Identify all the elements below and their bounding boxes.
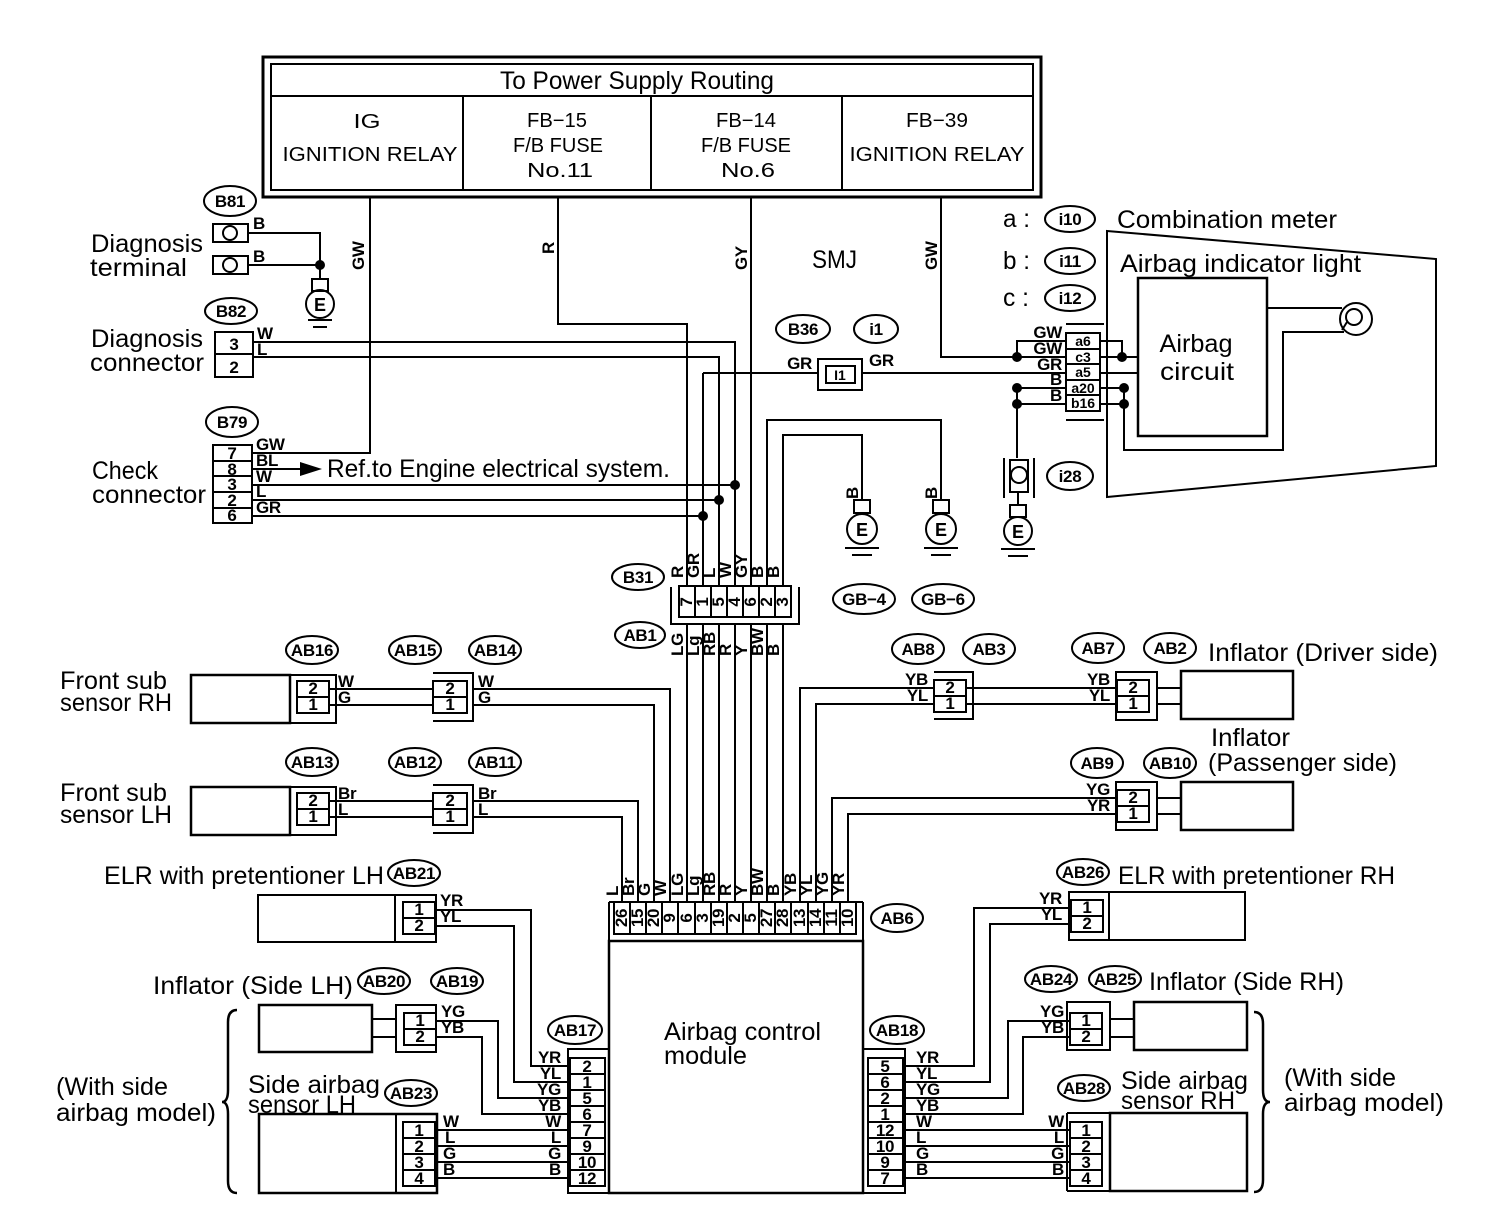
wire LG B31 pin7 to module pin 6 xyxy=(686,624,688,902)
svg-text:AB12: AB12 xyxy=(394,753,436,772)
connector i28 label xyxy=(1047,462,1093,490)
AB21 pin box xyxy=(403,902,435,934)
svg-text:Inflator: Inflator xyxy=(1211,724,1290,752)
svg-text:Inflator (Side LH): Inflator (Side LH) xyxy=(153,972,353,1000)
inline connector AB12/AB11 xyxy=(433,785,473,833)
connector AB18 housing xyxy=(863,1049,905,1193)
wire Br AB11 to module pin 15 xyxy=(473,801,638,902)
svg-text:1: 1 xyxy=(308,695,317,714)
svg-text:AB21: AB21 xyxy=(393,864,435,883)
wire B from b16 xyxy=(1017,403,1066,405)
svg-text:1: 1 xyxy=(945,694,954,713)
connector i12 label xyxy=(1045,285,1095,311)
combination meter outline trapezoid xyxy=(1107,231,1436,497)
svg-text:IGNITION RELAY: IGNITION RELAY xyxy=(850,144,1025,166)
wire L AB18 pin 10 to AB28 pin 2 xyxy=(903,1145,1070,1147)
svg-text:airbag model): airbag model) xyxy=(56,1099,216,1127)
connector B31 housing xyxy=(671,587,799,624)
svg-text:YR: YR xyxy=(829,873,848,896)
svg-text:E: E xyxy=(935,520,947,540)
wire GR from riser to I1 xyxy=(703,372,818,374)
svg-text:GW: GW xyxy=(349,240,368,270)
svg-text:AB28: AB28 xyxy=(1063,1079,1105,1098)
wire YG AB18 pin 2 to AB24 xyxy=(903,1021,1070,1098)
connector AB17 housing xyxy=(568,1049,609,1193)
svg-text:3: 3 xyxy=(229,335,238,354)
svg-text:GB−6: GB−6 xyxy=(921,590,965,609)
airbag circuit box xyxy=(1138,278,1267,436)
power box outer frame xyxy=(263,57,1041,197)
wire R from FB-15 down to B31 pin 7 xyxy=(558,197,687,586)
front sub sensor LH body xyxy=(191,787,290,835)
connector AB18 label xyxy=(870,1016,924,1044)
svg-text:GR: GR xyxy=(869,351,894,370)
svg-text:FB−14: FB−14 xyxy=(716,110,776,132)
wire B AB18 pin 7 to AB28 pin 4 xyxy=(903,1177,1070,1179)
wire Br AB13 to AB12 xyxy=(329,800,433,802)
svg-text:I1: I1 xyxy=(834,367,846,383)
wire L from pin 2 to B31 pin 5 xyxy=(252,499,719,501)
wire W from pin 3 to B31 pin 4 xyxy=(252,484,735,486)
link to AB19 xyxy=(372,1019,396,1037)
svg-text:GY: GY xyxy=(732,245,751,270)
connector B79 pins 7 8 3 2 6 xyxy=(213,445,252,523)
svg-text:AB10: AB10 xyxy=(1149,754,1191,773)
svg-text:2: 2 xyxy=(414,916,423,935)
svg-text:E: E xyxy=(314,295,326,315)
svg-text:connector: connector xyxy=(90,349,204,377)
connector AB14 label xyxy=(469,636,521,664)
svg-text:a :: a : xyxy=(1003,205,1030,233)
connector AB2 label xyxy=(1144,633,1196,663)
wire W AB23 to AB17 pin 7 xyxy=(435,1129,570,1131)
svg-text:E: E xyxy=(1012,522,1024,542)
svg-text:AB8: AB8 xyxy=(901,640,934,659)
connector B31 pin row 7 1 5 4 6 2 3 xyxy=(679,586,791,617)
svg-text:2: 2 xyxy=(1081,1027,1090,1046)
svg-text:F/B FUSE: F/B FUSE xyxy=(513,135,603,157)
inline connector AB15/AB14 xyxy=(433,673,473,721)
svg-text:(Passenger side): (Passenger side) xyxy=(1208,749,1397,777)
right brace xyxy=(1254,1012,1270,1192)
side airbag sensor RH body xyxy=(1110,1113,1247,1191)
svg-text:GW: GW xyxy=(922,240,941,270)
wire YB AB3 to AB7 xyxy=(966,687,1117,689)
svg-text:2: 2 xyxy=(229,358,238,377)
svg-text:B: B xyxy=(922,487,941,499)
svg-text:2: 2 xyxy=(1082,914,1091,933)
ground E GB-4 xyxy=(845,500,879,555)
connector B82 label xyxy=(205,298,257,324)
svg-text:FB−39: FB−39 xyxy=(906,110,968,132)
connector AB28 label xyxy=(1058,1075,1110,1101)
combination meter connector tray xyxy=(1066,324,1104,420)
wire R B31 pin4 to module pin 2 xyxy=(734,624,736,902)
svg-text:ELR with pretentioner RH: ELR with pretentioner RH xyxy=(1118,862,1395,890)
svg-text:YR: YR xyxy=(1087,796,1110,815)
svg-text:sensor LH: sensor LH xyxy=(60,801,172,829)
power supply routing block xyxy=(263,57,1041,197)
connector AB6 pin row xyxy=(614,902,856,934)
svg-text:B82: B82 xyxy=(216,302,246,321)
inline connector AB7/AB2 xyxy=(1116,672,1157,720)
wire YR module pin 10 to AB9 xyxy=(848,814,1117,902)
svg-text:sensor RH: sensor RH xyxy=(60,689,172,717)
svg-text:1: 1 xyxy=(445,807,454,826)
SMJ joint I1 xyxy=(818,359,862,390)
connector AB1 label xyxy=(615,622,665,648)
svg-text:AB17: AB17 xyxy=(554,1021,596,1040)
wire GY from FB-14 down to B31 pin 6 xyxy=(750,197,752,586)
connector B81 label xyxy=(204,186,256,216)
meter side wire b16 xyxy=(1100,403,1124,405)
svg-text:i1: i1 xyxy=(869,320,883,339)
svg-text:ELR with pretentioner LH: ELR with pretentioner LH xyxy=(104,862,384,890)
wire B AB23 to AB17 pin 12 xyxy=(435,1177,570,1179)
connector AB10 label xyxy=(1144,748,1196,778)
svg-text:B31: B31 xyxy=(623,568,653,587)
svg-text:SMJ: SMJ xyxy=(812,246,857,274)
link to driver inflator xyxy=(1157,688,1181,704)
svg-text:c3: c3 xyxy=(1075,349,1091,365)
wire G AB16 to AB15 xyxy=(329,704,433,706)
inflator side RH body xyxy=(1134,1002,1247,1050)
svg-text:Inflator (Side RH): Inflator (Side RH) xyxy=(1149,968,1344,996)
svg-text:7: 7 xyxy=(880,1169,889,1188)
side airbag sensor LH body xyxy=(259,1114,437,1193)
svg-text:AB14: AB14 xyxy=(474,641,517,660)
svg-text:4: 4 xyxy=(1081,1169,1091,1188)
svg-text:AB25: AB25 xyxy=(1094,970,1136,989)
wire BL from pin 8 with arrow xyxy=(252,468,300,470)
arrow head xyxy=(300,462,322,476)
connector AB6 housing xyxy=(609,902,863,941)
connector AB18 pin column 5 6 2 1 12 10 9 7 xyxy=(868,1058,903,1186)
lamp return wire to b16 xyxy=(1124,332,1344,450)
connector AB25 label xyxy=(1089,966,1141,992)
wire W AB18 pin 12 to AB28 pin 1 xyxy=(903,1129,1070,1131)
connector B82 pins xyxy=(215,332,253,377)
AB19 pin box xyxy=(404,1013,436,1045)
svg-text:i11: i11 xyxy=(1059,252,1081,271)
power box inner frame xyxy=(271,64,1033,190)
svg-text:3: 3 xyxy=(773,597,792,606)
svg-text:AB1: AB1 xyxy=(623,626,656,645)
svg-text:No.6: No.6 xyxy=(721,160,775,182)
svg-text:a5: a5 xyxy=(1075,364,1091,380)
connector AB19 label xyxy=(431,968,483,994)
connector AB9 label xyxy=(1071,748,1123,778)
svg-text:AB19: AB19 xyxy=(436,972,478,991)
wire Lg B31 pin1 to module pin 3 xyxy=(702,624,704,902)
meter side wire c3 into airbag circuit xyxy=(1100,356,1138,358)
wire from airbag circuit to lamp xyxy=(1267,307,1342,309)
junction dot xyxy=(1117,352,1127,362)
junction dot on GW xyxy=(1012,352,1022,362)
svg-text:circuit: circuit xyxy=(1160,358,1234,386)
svg-text:connector: connector xyxy=(92,481,206,509)
wire W from B82 pin 3 to B31 pin 4 xyxy=(253,342,735,586)
wire YR AB21 to AB17 pin 2 xyxy=(435,910,570,1066)
ELR pretentioner RH body xyxy=(1069,892,1245,940)
connector AB8 label xyxy=(892,634,944,664)
svg-text:B36: B36 xyxy=(788,320,818,339)
wire YL module pin 14 to AB8 xyxy=(816,704,934,902)
svg-text:1: 1 xyxy=(1128,694,1137,713)
svg-text:No.11: No.11 xyxy=(527,160,593,182)
svg-text:1: 1 xyxy=(308,807,317,826)
svg-text:i12: i12 xyxy=(1059,289,1082,308)
wire YB AB19 to AB17 pin 6 xyxy=(436,1037,570,1114)
AB28 pin box xyxy=(1070,1122,1102,1186)
column divider 2 xyxy=(650,96,652,190)
wire L AB11 to module pin 26 xyxy=(473,817,622,902)
svg-text:(With side: (With side xyxy=(56,1073,168,1101)
wire GR from pin 6 to B31 pin 1 xyxy=(252,515,703,517)
left brace xyxy=(222,1010,237,1193)
wire L from B82 pin 2 to B31 pin 5 xyxy=(253,357,719,586)
wire B from B31 pin 3 to ground GB-4 xyxy=(783,435,862,586)
connector AB6 label xyxy=(871,904,923,932)
wire BW B31 pin2 to module pin 27 xyxy=(766,624,768,902)
junction dot xyxy=(730,480,740,490)
svg-text:2: 2 xyxy=(415,1027,424,1046)
wire RB B31 pin5 to module pin 19 xyxy=(718,624,720,902)
svg-text:1: 1 xyxy=(445,695,454,714)
connector AB7 label xyxy=(1072,633,1124,663)
svg-text:To Power Supply Routing: To Power Supply Routing xyxy=(500,67,774,95)
wire G AB23 to AB17 pin 10 xyxy=(435,1161,570,1163)
combination meter connector pins a6 c3 a5 a20 b16 xyxy=(1066,333,1100,411)
connector AB16 label xyxy=(286,636,338,664)
svg-text:10: 10 xyxy=(838,909,857,927)
wire YG AB19 to AB17 pin 5 xyxy=(436,1021,570,1098)
connector B31 label xyxy=(612,564,664,590)
svg-text:B: B xyxy=(843,487,862,499)
wire B B31 pin3 to module pin 28 xyxy=(782,624,784,902)
connector AB17 pin column 2 1 5 6 7 9 10 12 xyxy=(570,1058,605,1186)
svg-text:YL: YL xyxy=(907,686,928,705)
AB16 pin box xyxy=(297,681,329,713)
svg-text:B79: B79 xyxy=(217,413,247,432)
wire YL AB18 pin 6 to AB26 xyxy=(903,924,1071,1082)
ELR pretentioner LH body xyxy=(258,895,436,942)
AB23 pin box xyxy=(403,1122,435,1186)
inflator side LH body xyxy=(259,1005,372,1052)
connector AB20 label xyxy=(358,968,410,994)
svg-text:6: 6 xyxy=(227,506,236,525)
ground E below diagnosis terminal xyxy=(306,279,334,327)
AB24 housing xyxy=(1067,1002,1110,1050)
connector AB3 label xyxy=(963,634,1015,664)
wire GW branch to a6 xyxy=(1017,341,1066,357)
svg-text:AB20: AB20 xyxy=(363,972,405,991)
link from AB25 xyxy=(1110,1019,1134,1037)
connector AB17 label xyxy=(548,1016,602,1044)
svg-text:a20: a20 xyxy=(1071,380,1095,396)
svg-text:AB3: AB3 xyxy=(972,640,1005,659)
wire YB AB18 pin 1 to AB24 xyxy=(903,1037,1070,1114)
svg-text:sensor RH: sensor RH xyxy=(1121,1087,1235,1115)
connector AB13 label xyxy=(286,748,338,776)
AB13 pin box xyxy=(297,793,329,825)
wire YB module pin 13 to AB8 xyxy=(800,688,934,902)
junction dot xyxy=(698,511,708,521)
wire L AB13 to AB12 xyxy=(329,816,433,818)
connector AB21 label xyxy=(388,860,440,886)
svg-text:1: 1 xyxy=(1128,804,1137,823)
svg-text:Ref.to Engine electrical syste: Ref.to Engine electrical system. xyxy=(327,455,670,483)
svg-text:AB9: AB9 xyxy=(1080,754,1113,773)
wire B from contact 2 xyxy=(248,264,320,266)
wire B from contact 1 xyxy=(248,233,320,279)
svg-text:IGNITION RELAY: IGNITION RELAY xyxy=(283,144,458,166)
wire Y B31 pin6 to module pin 5 xyxy=(750,624,752,902)
wire GW from IG relay down to check connector pin 7 xyxy=(252,197,370,453)
wire GR riser to I1 line xyxy=(702,373,704,586)
line a20 to b16 xyxy=(1123,388,1125,404)
inline connector AB9/AB10 xyxy=(1116,782,1157,830)
wire YG module pin 11 to AB9 xyxy=(832,798,1117,902)
inline connector AB8/AB3 xyxy=(934,672,973,719)
indicator lamp xyxy=(1340,303,1372,335)
svg-text:AB11: AB11 xyxy=(474,753,515,772)
AB19 housing xyxy=(396,1005,436,1052)
svg-text:B: B xyxy=(253,214,265,233)
wire W AB16 to AB15 xyxy=(329,688,433,690)
svg-text:AB15: AB15 xyxy=(394,641,436,660)
svg-text:a6: a6 xyxy=(1075,333,1091,349)
svg-text:AB2: AB2 xyxy=(1153,639,1186,658)
column divider 3 xyxy=(841,96,843,190)
AB24 pin box xyxy=(1070,1013,1102,1045)
svg-text:AB26: AB26 xyxy=(1062,863,1104,882)
svg-text:AB16: AB16 xyxy=(291,641,333,660)
wire B from B31 pin 2 to ground GB-6 xyxy=(767,420,941,586)
front sub sensor RH connector housing xyxy=(290,675,336,723)
svg-text:F/B FUSE: F/B FUSE xyxy=(701,135,791,157)
svg-text:GB−4: GB−4 xyxy=(842,590,887,609)
ground E below i28 xyxy=(1001,505,1035,556)
svg-text:AB18: AB18 xyxy=(876,1021,918,1040)
svg-text:YL: YL xyxy=(1089,686,1110,705)
wire GW from FB-39 down to combination meter c3 xyxy=(941,197,1066,357)
svg-text:i28: i28 xyxy=(1059,467,1082,486)
airbag control module box xyxy=(609,941,863,1193)
wire G AB18 pin 9 to AB28 pin 3 xyxy=(903,1161,1070,1163)
svg-text:R: R xyxy=(539,242,558,254)
svg-text:c :: c : xyxy=(1003,284,1029,312)
svg-text:Airbag: Airbag xyxy=(1160,330,1233,358)
svg-text:i10: i10 xyxy=(1059,210,1082,229)
connector i10 label xyxy=(1045,206,1095,232)
svg-text:AB7: AB7 xyxy=(1081,639,1114,658)
svg-text:terminal: terminal xyxy=(90,254,187,282)
meter side wire a6 jumper xyxy=(1100,341,1122,357)
svg-text:4: 4 xyxy=(414,1169,424,1188)
wire B from a20 down to i28 xyxy=(1017,388,1066,458)
connector AB26 label xyxy=(1057,859,1109,885)
ground E GB-6 xyxy=(924,500,958,555)
wire YL AB3 to AB7 xyxy=(966,703,1117,705)
meter side wire a5 into airbag circuit xyxy=(1100,372,1138,374)
svg-text:AB24: AB24 xyxy=(1030,970,1073,989)
junction dots on B xyxy=(1012,383,1022,393)
svg-text:E: E xyxy=(856,520,868,540)
wire YL AB21 to AB17 pin 1 xyxy=(435,926,570,1082)
junction dot xyxy=(315,260,325,270)
svg-text:GR: GR xyxy=(787,354,812,373)
meter side wire a20 xyxy=(1100,387,1124,389)
junction dots xyxy=(1119,383,1129,393)
ground GB-4 label xyxy=(833,584,895,614)
connector AB23 label xyxy=(385,1080,437,1106)
connector i11 label xyxy=(1045,248,1095,274)
connector AB11 label xyxy=(469,748,521,776)
ground GB-6 label xyxy=(912,584,974,614)
svg-text:AB13: AB13 xyxy=(291,753,333,772)
connector AB24 label xyxy=(1025,966,1077,992)
svg-text:module: module xyxy=(664,1042,747,1070)
svg-text:(With side: (With side xyxy=(1284,1064,1396,1092)
wire L AB23 to AB17 pin 9 xyxy=(435,1145,570,1147)
wire G AB14 to module pin 20 xyxy=(473,705,654,902)
svg-text:Combination meter: Combination meter xyxy=(1117,206,1337,234)
svg-text:FB−15: FB−15 xyxy=(527,110,587,132)
front sub sensor RH body xyxy=(191,675,290,723)
svg-text:IG: IG xyxy=(354,111,381,133)
wire YR AB18 pin 5 to AB26 xyxy=(903,908,1071,1066)
connector i28 xyxy=(1004,458,1034,498)
svg-text:AB23: AB23 xyxy=(390,1084,432,1103)
junction dot xyxy=(714,495,724,505)
svg-text:Inflator (Driver side): Inflator (Driver side) xyxy=(1208,639,1438,667)
diagnosis terminal contact 2 xyxy=(213,256,248,274)
svg-text:b :: b : xyxy=(1003,247,1030,275)
svg-text:B: B xyxy=(764,566,783,578)
column divider 1 xyxy=(462,96,464,190)
header separator xyxy=(271,95,1033,97)
svg-text:12: 12 xyxy=(578,1169,596,1188)
AB26 pin box xyxy=(1071,900,1103,932)
inflator driver side body xyxy=(1181,671,1293,719)
connector B36 label xyxy=(776,315,830,343)
svg-text:B: B xyxy=(253,247,265,266)
wire i28 to ground xyxy=(1017,492,1019,505)
inflator passenger side body xyxy=(1181,782,1293,830)
connector B79 label xyxy=(206,407,258,437)
diagnosis terminal contact 1 xyxy=(213,224,248,242)
svg-text:B81: B81 xyxy=(215,192,245,211)
wire W AB14 to module pin 9 xyxy=(473,689,670,902)
connector i1 label xyxy=(854,315,898,343)
connector AB15 label xyxy=(389,636,441,664)
svg-text:airbag model): airbag model) xyxy=(1284,1089,1444,1117)
svg-text:AB6: AB6 xyxy=(880,909,913,928)
front sub sensor LH connector housing xyxy=(290,787,336,835)
connector AB12 label xyxy=(389,748,441,776)
svg-text:Airbag indicator light: Airbag indicator light xyxy=(1120,250,1361,278)
wire GR from I1 to combination meter a5 xyxy=(862,372,1066,374)
link to passenger inflator xyxy=(1157,798,1181,814)
svg-text:b16: b16 xyxy=(1071,395,1095,411)
